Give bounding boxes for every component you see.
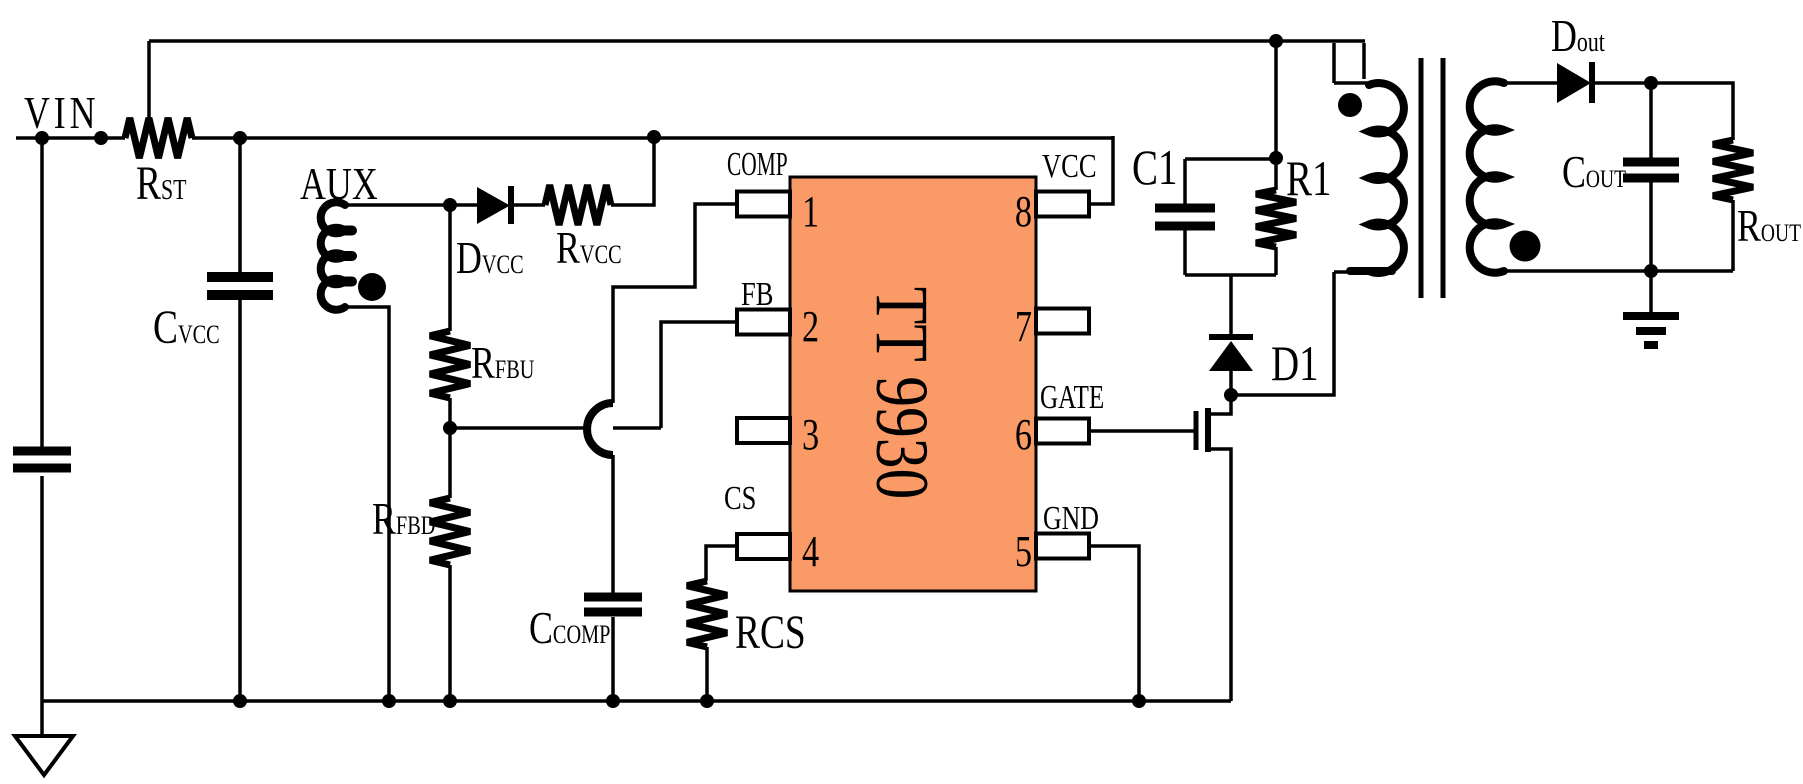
svg-text:GND: GND [1043, 499, 1099, 537]
svg-text:R1: R1 [1286, 150, 1332, 206]
svg-text:FB: FB [741, 275, 773, 313]
svg-text:TT 9930: TT 9930 [860, 287, 943, 499]
svg-text:CS: CS [724, 479, 756, 517]
svg-text:1: 1 [802, 187, 819, 236]
svg-text:VIN: VIN [24, 87, 99, 138]
svg-text:8: 8 [1015, 187, 1032, 236]
svg-text:C1: C1 [1132, 139, 1178, 195]
svg-text:RCS: RCS [735, 607, 806, 659]
svg-text:D1: D1 [1271, 335, 1319, 391]
svg-text:5: 5 [1015, 527, 1032, 576]
svg-text:4: 4 [802, 527, 819, 576]
svg-text:6: 6 [1015, 410, 1032, 459]
svg-text:COMP: COMP [727, 146, 788, 183]
svg-text:GATE: GATE [1040, 378, 1104, 416]
svg-text:VCC: VCC [1042, 147, 1097, 185]
svg-text:2: 2 [802, 302, 819, 351]
svg-text:7: 7 [1015, 302, 1032, 351]
svg-text:AUX: AUX [300, 158, 378, 209]
svg-text:3: 3 [802, 410, 819, 459]
